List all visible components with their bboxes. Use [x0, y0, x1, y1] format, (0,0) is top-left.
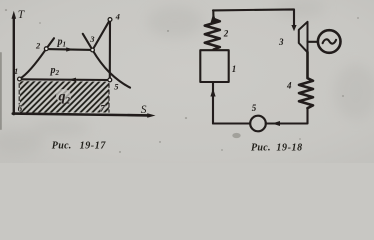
- svg-text:S: S: [141, 104, 147, 116]
- line 2-3 (isobar p1): [46, 48, 92, 51]
- svg-text:Рис.19-17: Рис.19-17: [52, 141, 107, 152]
- box 1 (chamber): [200, 50, 228, 82]
- node 2: [44, 47, 48, 51]
- node 5: [108, 78, 112, 82]
- T axis: [13, 17, 15, 114]
- svg-text:5: 5: [252, 103, 257, 113]
- generator tilde: [323, 39, 337, 43]
- node 1: [18, 77, 22, 81]
- T axis arrowhead: [12, 11, 17, 19]
- arrow on p1 line: [66, 47, 74, 51]
- halo under q2 label: [56, 89, 71, 103]
- dashed line 5-7: [108, 84, 110, 113]
- arrow on p2 line pointing left: [68, 78, 76, 82]
- svg-text:1: 1: [232, 64, 237, 74]
- cooler coil 4 (zigzag): [299, 52, 313, 108]
- svg-text:3: 3: [89, 34, 95, 44]
- node 3: [91, 48, 95, 52]
- hatched area q2 under line 1-5: [20, 81, 109, 112]
- svg-text:1: 1: [14, 66, 18, 76]
- halo under label 6: [16, 104, 23, 112]
- paper speckles and scan smudges: [0, 9, 359, 153]
- arrow up into box 1: [210, 88, 215, 96]
- svg-text:5: 5: [114, 82, 119, 92]
- arrow down into turbine 3: [291, 25, 296, 31]
- arrow pointing left toward pump: [272, 121, 280, 126]
- arrow up toward top line (flow up out of coil 2): [211, 13, 217, 23]
- pump 5 (circle): [250, 116, 266, 132]
- svg-text:4: 4: [286, 81, 292, 91]
- wire: left vertical from bottom line up into box 1: [212, 83, 214, 124]
- generator (circle with ~): [318, 30, 341, 53]
- svg-text:3: 3: [278, 37, 284, 47]
- svg-text:4: 4: [115, 11, 120, 21]
- adiabat 4-5 (vertical): [109, 20, 111, 80]
- saturation curve through 3 down to tail past 5: [83, 34, 130, 88]
- S axis arrowhead: [147, 113, 155, 118]
- wire: bottom line from cooler 4 to pump 5: [266, 108, 308, 123]
- wire: short segment corner down to coil 2 with up arrow: [212, 10, 214, 20]
- soft paper blotches: [0, 0, 374, 155]
- halo under label 7: [99, 104, 106, 112]
- turbine 3 (trapezoid): [299, 22, 308, 53]
- svg-text:7: 7: [100, 103, 105, 113]
- dashed line 1-6: [18, 84, 20, 107]
- heater coil 2 (zigzag): [205, 19, 220, 51]
- svg-text:2: 2: [223, 28, 229, 38]
- paper background: [0, 0, 374, 163]
- wire: bottom line from left corner to pump 5: [213, 122, 251, 124]
- svg-text:Рис.19-18: Рис.19-18: [251, 142, 303, 153]
- line 3-4 (superheating): [93, 20, 111, 50]
- node 4: [108, 18, 112, 22]
- svg-text:2: 2: [35, 41, 41, 51]
- line 5-1 (isobar p2): [20, 78, 110, 81]
- S axis: [13, 114, 149, 116]
- svg-text:6: 6: [18, 104, 23, 114]
- wire: top line from above coil 2 to turbine inlet: [213, 9, 294, 26]
- shaft turbine to generator: [308, 41, 319, 43]
- curve 1-2 with stub beyond 2 (lower boundary curve): [20, 38, 55, 79]
